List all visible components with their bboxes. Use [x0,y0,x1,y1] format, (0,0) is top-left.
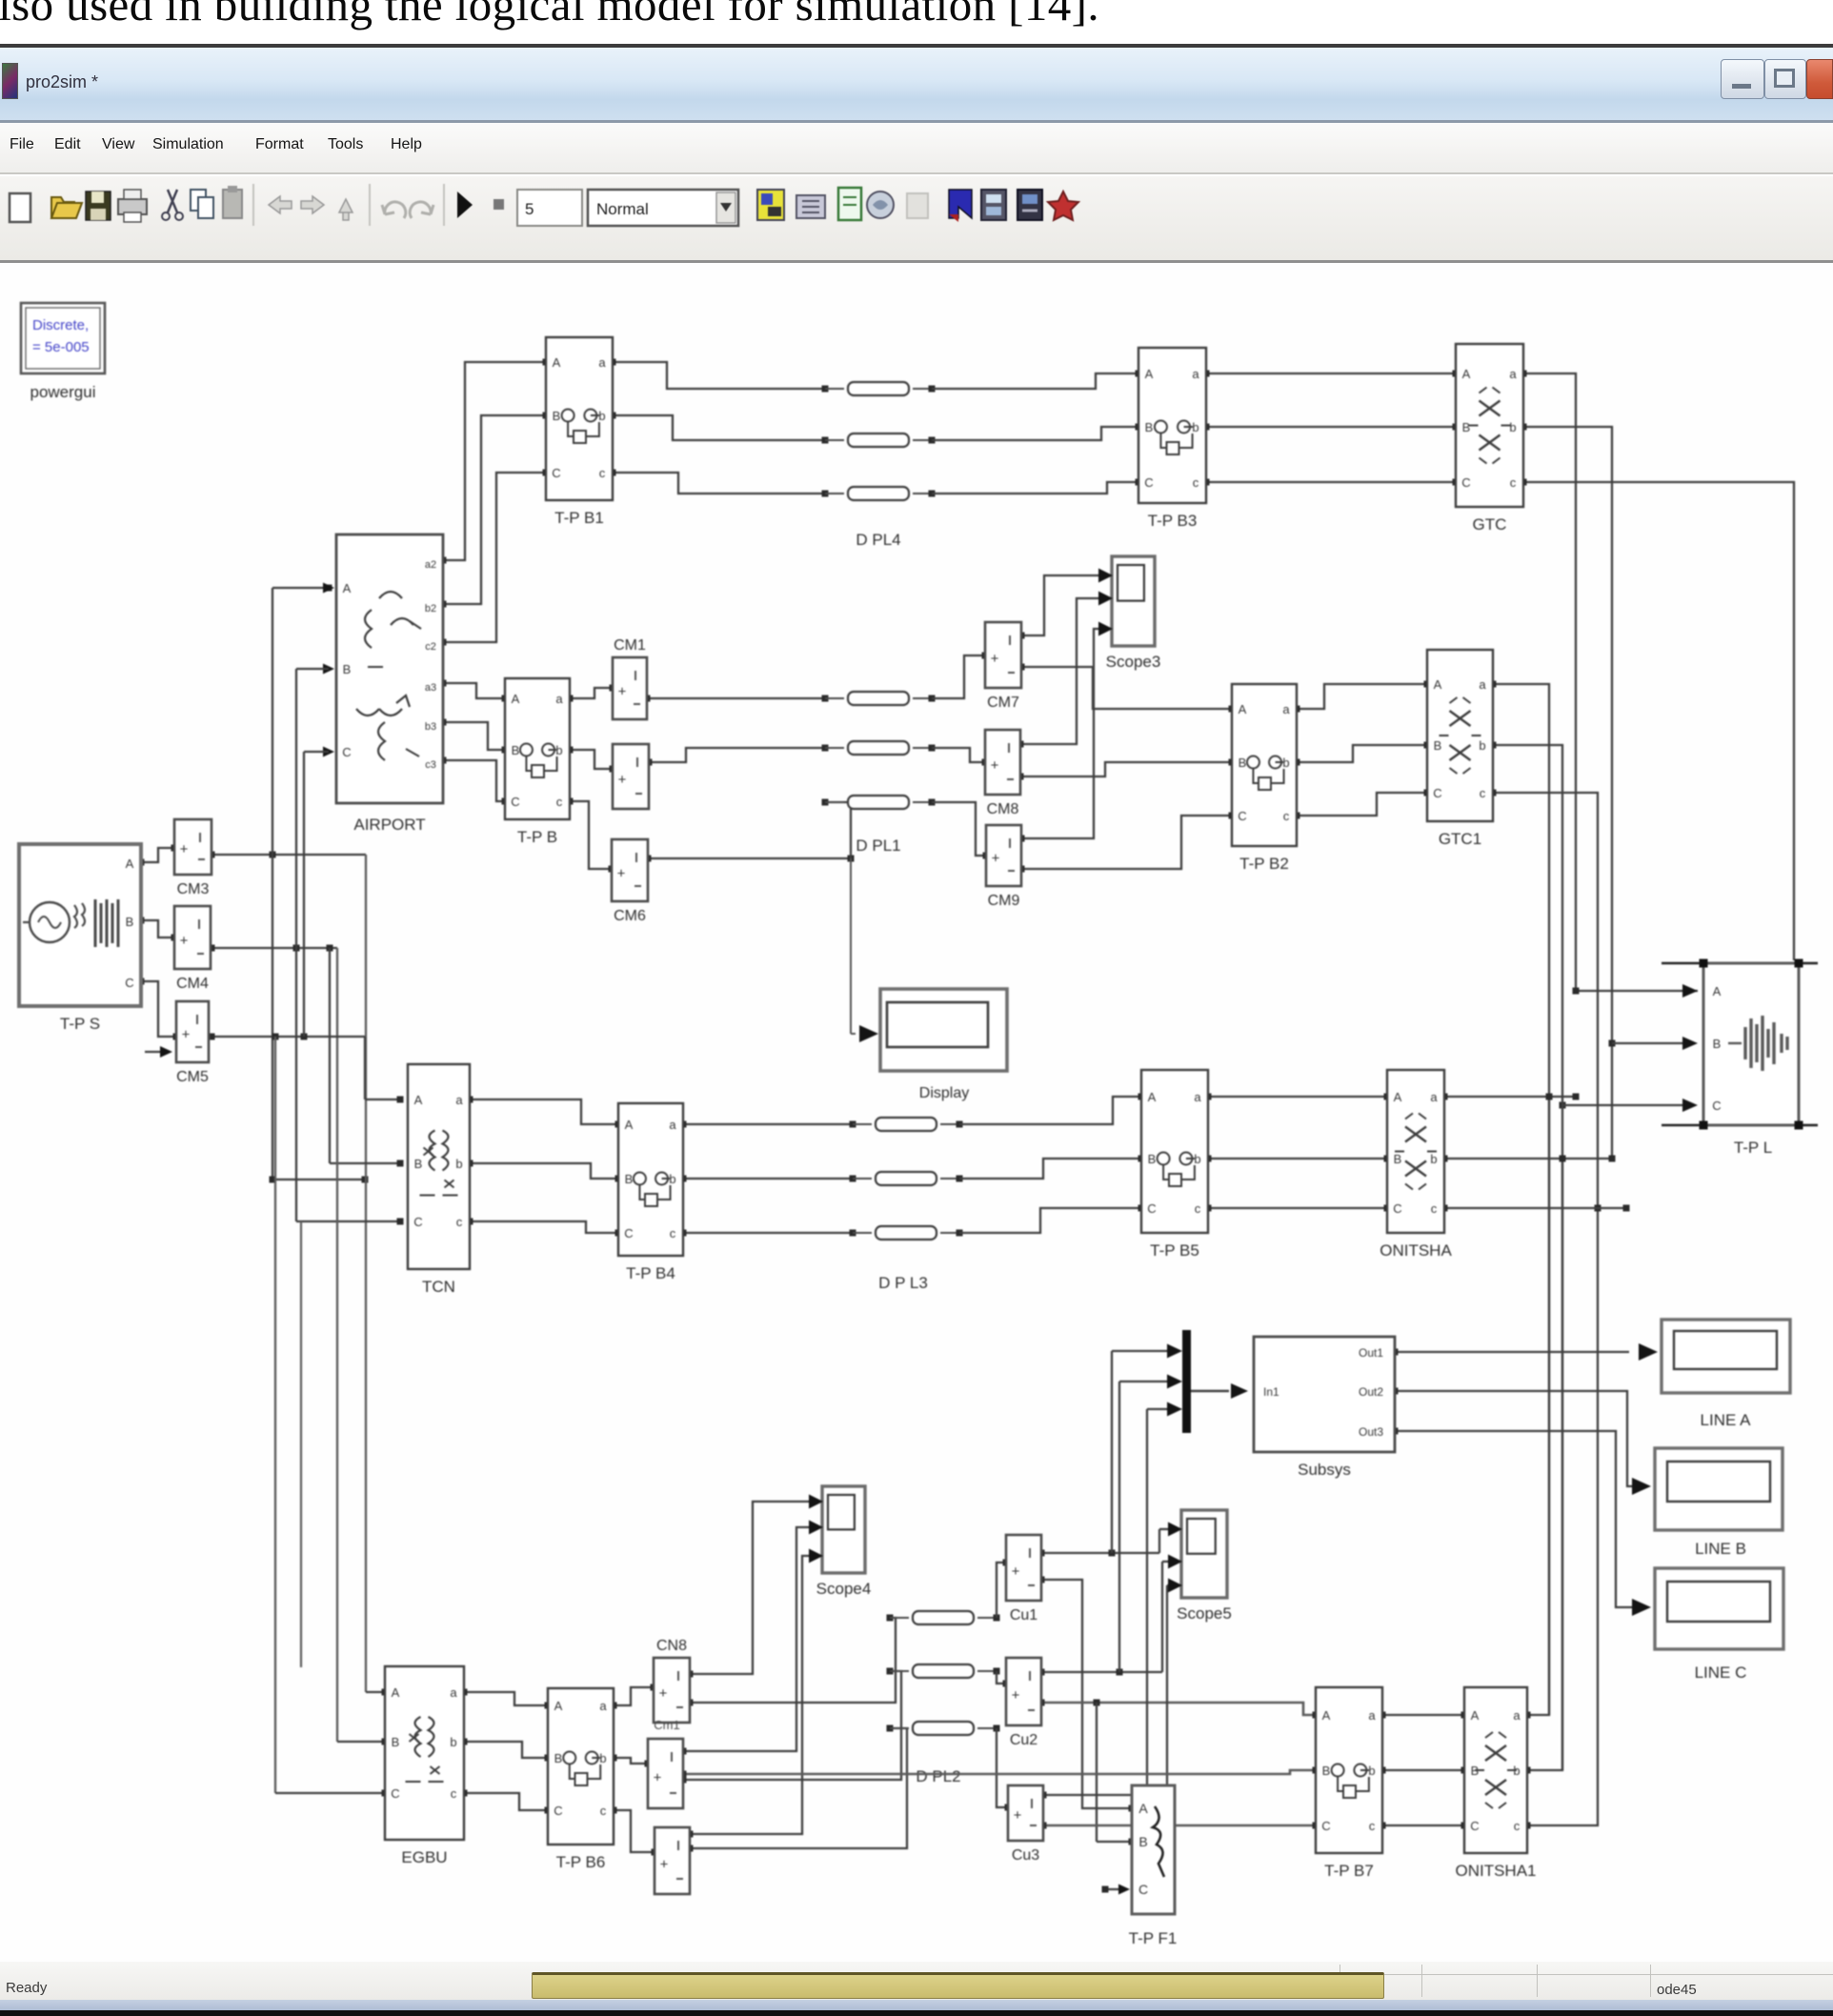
wire CM7 output2 to T-P B2.A [1021,667,1232,709]
svg-text:GTC: GTC [1473,515,1507,534]
svg-text:D P L3: D P L3 [878,1274,928,1292]
powergui block [21,303,105,373]
svg-text:+: + [659,1685,668,1702]
svg-text:T-P B: T-P B [517,828,557,846]
wire CM4 output bus [211,947,337,949]
wire T-P B.b to CM2 input [570,750,613,769]
junction Cu2 line to T-P F1.B [1094,1700,1100,1706]
svg-text:In1: In1 [1263,1385,1279,1399]
block AIRPORT three-winding transformer [336,534,443,803]
svg-text:+: + [992,851,1000,867]
svg-text:+: + [1014,1807,1022,1824]
svg-text:LINE C: LINE C [1695,1663,1747,1682]
wire bus to T-P L.C input [1560,1102,1566,1109]
svg-text:CM6: CM6 [614,908,646,924]
wire T-P B5.b to ONITSHA.B [1208,1158,1387,1159]
svg-text:a3: a3 [425,682,436,694]
wire Cu1 output2 down to T-P F1.A [1041,1580,1132,1808]
svg-text:b: b [555,743,562,757]
block T-P B1 [546,337,613,500]
horizontal scrollbar thumb [532,1972,1384,1999]
toolbar icon paste [223,190,242,218]
svg-text:B: B [553,409,561,423]
svg-text:C: C [1138,1882,1148,1897]
wire D PL2 A to Cu1 input [997,1562,1006,1618]
wire T-P S.B to CM4 input [141,920,174,937]
wire CM9 output1 up to Scope3 input3 [1021,629,1098,838]
wire D PL1 A to CM7 input [932,655,985,698]
junction ONITSHA.c row bus [1595,1205,1601,1212]
wire T-P B3.b to GTC.B [1206,426,1456,428]
toolbar icon update [1017,190,1042,220]
svg-text:A: A [1322,1708,1331,1723]
svg-text:C: C [1147,1201,1156,1216]
svg-text:LINE A: LINE A [1701,1411,1752,1429]
wire GTC1.b feedback down to ONITSHA1.b row [1493,745,1562,1770]
svg-text:Out2: Out2 [1359,1385,1383,1399]
status bar [0,1962,1833,2000]
wire junction down to Display input [850,858,852,1034]
wire Cu1 output1 to mux input1 and Scope5 input1 [1041,1552,1159,1554]
svg-text:EGBU: EGBU [401,1848,447,1866]
bottom window strips [0,2000,1833,2010]
svg-text:ONITSHA1: ONITSHA1 [1455,1862,1536,1880]
svg-text:A: A [512,692,520,706]
svg-text:a: a [599,1699,607,1713]
wire T-P B6.b to CN10 input [614,1758,648,1764]
svg-text:T-P B5: T-P B5 [1150,1241,1199,1260]
toolbar icon model browser [796,195,825,218]
svg-text:b: b [1509,420,1516,434]
block CM9 [986,825,1021,886]
svg-text:A: A [1138,1801,1148,1816]
wire CN10 output2 to D PL2 line B [683,1671,901,1780]
wire CN8 output2 to D PL2 line A [690,1618,896,1703]
wire CM6 output junction to D PL1 line C [648,857,851,859]
vertical bus x319 to AIRPORT.C [301,1034,308,1040]
svg-text:B: B [554,1751,563,1765]
toolbar icon report [838,188,861,220]
svg-text:A: A [1434,677,1442,692]
wire EGBU.c to T-P B6.C [464,1793,548,1810]
wire D PL2 B to Cu2 input [997,1671,1006,1683]
wire CM8 output1 up to Scope3 input2 [1020,598,1098,744]
svg-text:C: C [552,466,560,480]
wire CM3 output to AIRPORT.A bus [211,854,366,856]
svg-text:+: + [182,1027,191,1043]
block Cu1 [1006,1535,1041,1601]
block T-P S three-phase source [19,844,141,1006]
svg-text:c: c [600,1804,607,1818]
block CN8 [654,1658,690,1723]
vertical bus x311 to AIRPORT.B and down to TCN.C [293,945,300,952]
wire AIRPORT.a2 up to T-P B1.A [443,362,546,560]
wire T-P B7.c to ONITSHA1.C [1382,1824,1464,1826]
svg-text:A: A [1462,367,1471,381]
svg-text:B: B [1239,756,1247,770]
svg-text:B: B [343,662,352,676]
svg-text:A: A [343,581,352,595]
svg-text:A: A [1145,367,1154,381]
wire GTC.c feedback down right edge to T-P L corner [1523,482,1794,960]
svg-text:D PL4: D PL4 [856,531,900,549]
block CM3 [174,819,211,875]
svg-text:c3: c3 [425,759,436,771]
paper text above window [0,0,1099,31]
svg-text:a: a [1513,1708,1521,1723]
block T-P B3 [1138,348,1206,503]
svg-text:B: B [1138,1834,1147,1849]
wire T-P B2.c to GTC1.C [1297,793,1427,816]
wire T-P B5.a to ONITSHA.A [1208,1096,1387,1098]
scope Scope3 [1112,556,1155,646]
wire GTC1.a feedback down to ONITSHA1.a row [1493,684,1549,1715]
svg-text:c: c [1514,1819,1521,1833]
distributed line D PL1 phase B [822,745,829,752]
svg-text:a: a [1194,1090,1201,1104]
svg-text:+: + [991,651,999,667]
wire T-P B.a to CM1 input [570,688,613,698]
svg-text:a: a [1430,1090,1438,1104]
block T-P B4 [618,1103,683,1256]
block T-P L three-phase load (selected) [1703,963,1799,1125]
svg-text:ONITSHA: ONITSHA [1380,1241,1452,1260]
scope Scope4 [822,1486,865,1573]
block CM7 [985,622,1021,688]
block ONITSHA1 [1464,1687,1527,1853]
svg-text:C: C [1433,786,1441,800]
vertical bus x383 down to TCN.A [364,1037,366,1099]
svg-text:B: B [1394,1152,1402,1166]
display block Display [880,989,1007,1071]
block Cu2 [1006,1658,1041,1725]
distributed line D P L3 phase C [850,1230,856,1237]
svg-text:a: a [1282,702,1290,716]
svg-text:CM1: CM1 [614,637,646,654]
svg-text:B: B [625,1172,634,1186]
svg-text:+: + [617,865,626,881]
svg-text:T-P B3: T-P B3 [1148,512,1198,530]
svg-text:b: b [598,409,605,423]
block Subsys subsystem [1254,1337,1395,1452]
wire CM8 output2 to T-P B2.B [1020,762,1232,776]
svg-text:T-P B2: T-P B2 [1239,855,1289,873]
bus junction row y1238 [272,1179,365,1180]
svg-text:Scope3: Scope3 [1106,653,1161,671]
svg-text:CM3: CM3 [177,881,210,897]
wire AIRPORT.a3 to T-P B.A [443,683,505,698]
wire T-P B2.a to GTC1.A [1297,684,1427,709]
wire Subsys Out2 to LINE B display [1395,1391,1635,1486]
wire T-P B6.c to CN11 input [614,1810,655,1852]
svg-text:a2: a2 [425,559,436,571]
svg-text:a: a [1509,367,1517,381]
wire D P L3 A to T-P B5.A [959,1097,1141,1124]
svg-text:B: B [126,915,134,929]
wire D PL4 C to T-P B3.C [932,482,1138,494]
wire T-P B4.a to D P L3 line A [683,1123,853,1125]
svg-text:Scope4: Scope4 [816,1580,872,1598]
svg-text:LINE B: LINE B [1695,1540,1746,1558]
distributed line D PL2 phase C [887,1725,894,1732]
svg-text:c: c [1480,786,1486,800]
svg-text:A: A [1239,702,1247,716]
wire mux output to Subsys In1 [1191,1390,1212,1392]
toolbar icon print [118,199,147,214]
toolbar icon copy [191,190,206,211]
svg-text:= 5e-005: = 5e-005 [32,339,90,355]
wire CM2 output to D PL1 line B [649,748,825,762]
svg-text:c: c [1431,1201,1438,1216]
wire T-P B3.a to GTC.A [1206,373,1456,374]
svg-text:A: A [414,1093,423,1107]
wire GTC1.c feedback down to ONITSHA1.c row [1493,793,1598,1825]
svg-text:c: c [556,795,563,809]
svg-text:a: a [1479,677,1486,692]
toolbar icon redo [410,202,433,218]
svg-text:T-P B7: T-P B7 [1324,1862,1374,1880]
mux bus creator [1182,1330,1191,1433]
svg-text:C: C [1470,1819,1479,1833]
wire T-P B7.a to ONITSHA1.A [1382,1714,1464,1716]
block T-P B5 [1141,1070,1208,1233]
svg-text:D PL2: D PL2 [916,1767,960,1785]
svg-text:A: A [126,857,134,871]
toolbar icon forward [301,196,324,213]
vertical bus x289 down to EGBU.C [272,1034,279,1040]
svg-text:Discrete,: Discrete, [32,317,89,333]
wire GTC.a feedback down to T-P L.A row [1523,373,1698,991]
wire Cu2 output1 to mux input2 and Scope5 input2 [1041,1671,1162,1673]
svg-text:C: C [624,1226,633,1240]
svg-text:C: C [1461,475,1470,490]
wire TCN.c to T-P B4.C [470,1221,618,1233]
svg-text:A: A [1713,984,1722,998]
svg-text:CM7: CM7 [987,695,1019,711]
svg-text:a: a [1192,367,1199,381]
wire ONITSHA.b row joining vertical bus [1444,1158,1612,1159]
wire CM5 output bus [211,1036,365,1038]
wire AIRPORT.b2 up to T-P B1.B [443,415,546,604]
toolbar icon mechanics explorer [1048,192,1078,220]
svg-text:CM4: CM4 [176,976,209,992]
wire ONITSHA.a row joining vertical bus [1444,1096,1576,1098]
wire D PL4 B to T-P B3.B [932,427,1138,440]
block ONITSHA [1387,1070,1444,1233]
wire T-P B1.b to D PL4 line B [613,415,825,440]
svg-text:CM8: CM8 [987,801,1019,817]
svg-text:C: C [413,1215,422,1229]
toolbar icon cut [168,190,177,212]
block T-P B6 [548,1688,614,1845]
toolbar icon back [269,196,292,213]
svg-text:B: B [1462,420,1471,434]
svg-text:A: A [392,1685,400,1700]
wire T-P B4.c to D P L3 line C [683,1232,853,1234]
vertical bus x286 down to junction row [272,855,273,1179]
svg-text:a: a [669,1118,676,1132]
display block LINE A [1662,1320,1790,1393]
wire EGBU.a to T-P B6.A [464,1692,548,1705]
svg-text:c2: c2 [425,641,436,653]
svg-text:+: + [180,933,189,949]
svg-text:A: A [553,355,561,370]
toolbar icon new [10,193,30,222]
block CM5 [176,1001,209,1062]
svg-text:C: C [342,745,351,759]
svg-text:+: + [1012,1687,1020,1704]
distributed line D PL2 phase B [887,1668,894,1675]
svg-text:+: + [660,1856,669,1872]
distributed line D PL4 phase B [822,437,829,444]
svg-text:B: B [1713,1037,1722,1051]
svg-text:C: C [1238,809,1246,823]
svg-text:CM5: CM5 [176,1069,209,1085]
svg-text:c: c [1195,1201,1201,1216]
svg-text:Out1: Out1 [1359,1346,1383,1360]
toolbar icon library browser [757,190,784,220]
distributed line D PL4 phase A [822,386,829,393]
svg-text:B: B [1434,738,1442,753]
wire CN11 output2 to D PL2 line C [690,1728,907,1848]
wire T-P B7.b to ONITSHA1.B [1382,1769,1464,1771]
window buttons [1721,59,1764,99]
svg-text:b: b [599,1751,606,1765]
svg-text:b: b [1192,420,1198,434]
distributed line D PL2 phase A [887,1615,894,1622]
window top border [0,44,1833,48]
wire T-P B3.c to GTC.C [1206,481,1456,483]
svg-text:T-P F1: T-P F1 [1129,1929,1178,1947]
wire D PL4 A to T-P B3.A [932,373,1138,389]
svg-text:A: A [1471,1708,1480,1723]
wire Subsys Out1 to LINE A display [1395,1351,1629,1353]
block T-P B2 [1232,684,1297,846]
toolbar icon build all [981,190,1006,220]
wire T-P B4.b to D P L3 line B [683,1178,853,1179]
vertical bus x346 down to TCN.B [327,945,333,952]
wire Cu3 output1 to mux input3 and Scope5 input3 [1043,1794,1167,1796]
junction T-P L.A bus [1573,988,1580,995]
title bar [0,48,1833,122]
wire CN10 output1 up to Scope4 input2 [683,1527,810,1751]
wire canvas backdrop [138,359,1795,1895]
wire T-P B.c to CM6 input [570,801,612,869]
menu bar [0,123,1833,174]
svg-text:a: a [1368,1708,1376,1723]
svg-text:b: b [1479,738,1485,753]
svg-text:CM9: CM9 [988,893,1020,909]
wire AIRPORT.c2 up to T-P B1.C [443,473,546,642]
svg-text:b: b [1282,756,1289,770]
vertical bus x1626 continuation [1548,1097,1550,1715]
svg-text:AIRPORT: AIRPORT [353,816,425,834]
wire T-P B6.a to CN8 input [614,1687,654,1705]
stub arrow CM5 minus input [145,1051,168,1053]
svg-text:b: b [450,1735,456,1749]
svg-text:c: c [599,466,606,480]
svg-text:b: b [1194,1152,1200,1166]
vertical bus x384 down to EGBU.A [365,855,367,1692]
wire Subsys Out3 to LINE C display [1395,1431,1635,1607]
svg-text:+: + [1012,1563,1020,1580]
wire D P L3 C to T-P B5.C [959,1208,1141,1233]
svg-text:a: a [555,692,563,706]
title bar icon [2,63,18,99]
distributed line D PL1 phase A [822,696,829,702]
svg-text:GTC1: GTC1 [1439,830,1481,848]
svg-text:T-P S: T-P S [60,1015,100,1033]
wire D P L3 B to T-P B5.B [959,1159,1141,1179]
wire D PL1 C to CM9 input [932,802,986,856]
svg-text:a: a [455,1093,463,1107]
wire T-P B2.b to GTC1.B [1297,745,1427,762]
display block LINE C [1655,1568,1783,1649]
wire Cu3 output2 long line to T-P B7.C [1043,1824,1316,1827]
display block LINE B [1655,1448,1783,1530]
toolbar icon undo [382,202,406,218]
toolbar icon up [339,199,352,220]
stub arrow T-P F1.C input [1105,1888,1124,1890]
title text [26,72,98,92]
svg-text:B: B [414,1157,423,1171]
svg-text:C: C [554,1804,562,1818]
svg-text:Cu3: Cu3 [1012,1847,1039,1864]
svg-text:D PL1: D PL1 [856,837,900,855]
distributed line D PL1 phase C [822,799,829,806]
wire EGBU.b to T-P B6.B [464,1742,548,1758]
svg-text:A: A [1148,1090,1157,1104]
svg-text:c: c [1193,475,1199,490]
scope Scope5 [1181,1510,1227,1598]
svg-text:C: C [1393,1201,1401,1216]
svg-text:B: B [1145,420,1154,434]
wire T-P S.A to CM3 input [141,848,174,862]
block GTC1 [1427,650,1493,821]
wire CM7 output1 up to Scope3 input1 [1021,575,1098,635]
vertical bus x286 to AIRPORT.A [270,852,276,858]
svg-text:+: + [618,772,627,788]
wire CM9 output2 to T-P B2.C [1021,816,1232,869]
block TCN [408,1064,470,1269]
svg-text:C: C [1144,475,1153,490]
toolbar icon disabled [907,193,928,218]
svg-text:b: b [455,1157,462,1171]
toolbar icon save [86,192,111,220]
wire T-P B1.a to D PL4 line A [613,362,825,389]
svg-text:CN8: CN8 [656,1638,687,1654]
svg-text:c: c [670,1226,676,1240]
svg-text:a: a [598,355,606,370]
vertical bus x1640 continuation [1561,1159,1563,1770]
svg-text:Scope5: Scope5 [1177,1604,1232,1623]
block CM1 [613,657,647,719]
distributed line D P L3 phase B [850,1176,856,1182]
wire D PL1 B to CM8 input [932,748,985,762]
svg-text:Display: Display [919,1085,969,1101]
svg-text:c: c [1283,809,1290,823]
svg-text:C: C [125,976,133,990]
title bar bottom separator [0,120,1833,123]
svg-text:TCN: TCN [422,1278,455,1296]
block T-P B [505,678,570,819]
svg-text:b: b [1430,1152,1437,1166]
wire CN8 output1 up to Scope4 input1 [690,1502,810,1674]
svg-text:C: C [511,795,519,809]
svg-text:A: A [1394,1090,1402,1104]
svg-text:c: c [451,1786,457,1801]
toolbar icon open [51,197,82,218]
